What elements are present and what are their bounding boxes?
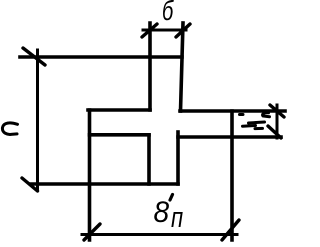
svg-text:б: б <box>162 0 175 27</box>
svg-text:п: п <box>171 202 183 233</box>
svg-text:8: 8 <box>154 196 170 229</box>
